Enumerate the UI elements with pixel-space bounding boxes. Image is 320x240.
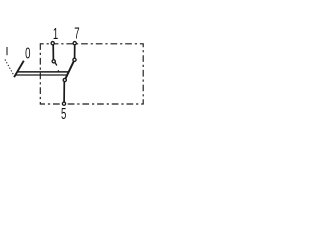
- terminal 7 pin circle: [73, 42, 76, 45]
- actuator position marker I: [6, 47, 8, 55]
- wire pivot to terminal 5: [63, 82, 65, 102]
- svg-text:7: 7: [74, 24, 79, 42]
- terminal 5 pin circle: [62, 102, 65, 105]
- wire terminal 1 to fixed contact: [52, 45, 54, 60]
- mechanical linkage upper line: [17, 71, 69, 73]
- fixed contact circle (terminal 1 side, open): [52, 60, 55, 63]
- actuator alternate-position arm (dotted): [5, 60, 14, 76]
- svg-text:0: 0: [25, 44, 30, 62]
- open contact stub below contact 1: [55, 63, 57, 66]
- enclosure dash-dot boundary box: [40, 44, 143, 104]
- svg-text:5: 5: [61, 105, 66, 123]
- movable contact pivot circle: [63, 78, 66, 81]
- open contact stub nub at linkage: [57, 70, 60, 71]
- svg-text:1: 1: [53, 24, 58, 42]
- fixed contact circle (terminal 7 side): [73, 58, 76, 61]
- terminal 1 pin circle: [51, 42, 54, 45]
- actuator lever arm (solid): [14, 61, 24, 77]
- moving contact blade: [66, 61, 74, 78]
- wire terminal 7 to fixed contact: [74, 45, 76, 58]
- mechanical linkage lower line: [15, 74, 67, 76]
